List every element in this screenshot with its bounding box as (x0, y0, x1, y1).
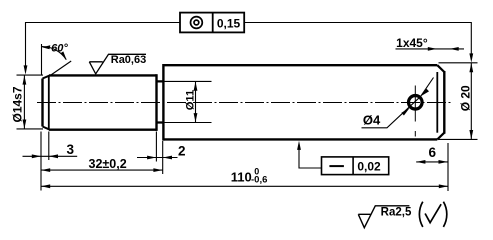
centerline (37, 102, 453, 104)
general surface roughness Ra2,5 (358, 206, 412, 228)
dimension 32±0,2 (41, 157, 163, 172)
svg-text:Ø14s7: Ø14s7 (11, 86, 25, 122)
dimension 3 (23, 142, 78, 158)
dimension 2 (137, 144, 186, 160)
svg-text:110: 110 (231, 170, 252, 185)
dimension 1x45 degrees chamfer (396, 36, 465, 51)
svg-text:0,15: 0,15 (217, 16, 241, 30)
extension lines below shaft (41, 132, 448, 192)
svg-text:1x45°: 1x45° (396, 36, 428, 50)
svg-text:-0,6: -0,6 (251, 174, 267, 185)
leader from frame to Ø14s7 dimension (24, 23, 180, 75)
svg-text:3: 3 (66, 142, 74, 157)
dimension Ø14s7 (11, 75, 44, 129)
svg-text:60°: 60° (51, 42, 68, 54)
svg-text:Ø11: Ø11 (185, 90, 197, 111)
leader from frame to Ø20 dimension (244, 23, 473, 63)
leader and label Ø4 (362, 78, 434, 128)
dimension 60 degrees (42, 42, 72, 77)
svg-text:32±0,2: 32±0,2 (89, 157, 127, 171)
dimension 6 (416, 145, 448, 164)
tolerance frame straightness 0,02 with leader (297, 141, 389, 175)
svg-text:0,02: 0,02 (357, 160, 381, 174)
dimension 110 with tolerance 0/-0,6 (41, 166, 448, 188)
dimension Ø11 (157, 81, 212, 122)
svg-text:Ø 20: Ø 20 (459, 85, 473, 111)
shaft outline (43, 64, 445, 141)
svg-text:Ra2,5: Ra2,5 (381, 207, 412, 219)
surface roughness Ra0,63 (89, 54, 146, 74)
svg-text:6: 6 (429, 145, 437, 160)
tolerance frame concentricity 0,15 (180, 13, 244, 33)
svg-text:Ø4: Ø4 (363, 112, 381, 127)
svg-text:Ra0,63: Ra0,63 (111, 54, 146, 66)
hole Ø4 (409, 86, 423, 137)
check mark in parentheses (419, 202, 446, 227)
dimension Ø20 (439, 63, 478, 140)
svg-text:2: 2 (178, 144, 186, 159)
